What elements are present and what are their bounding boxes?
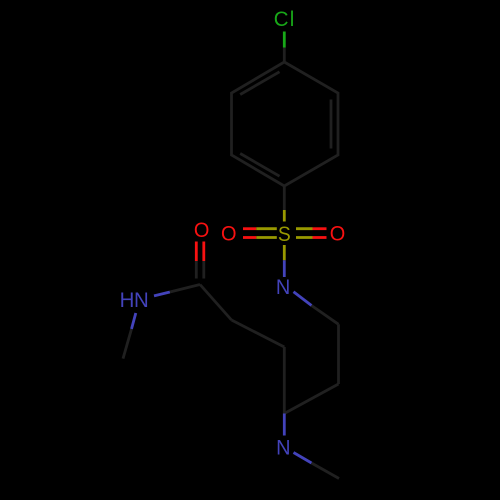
wire: Cl-C bond green half [283, 32, 286, 48]
wire: HN-CH3 bond nitrogen half [132, 313, 136, 329]
wire: C4-C5 bond [232, 320, 285, 347]
S=O right double bond S halves [296, 227, 313, 230]
C3=O double bond red halves [195, 242, 198, 262]
benzene double bond inner R [330, 100, 333, 149]
wire: C2-C6 bond [284, 384, 338, 414]
wire: C-S bond sulfur half [283, 210, 286, 222]
wire: S-N bond nitrogen half [283, 260, 286, 277]
wire: S-N bond sulfur half [283, 245, 286, 260]
S=O left double bond red halves [243, 227, 256, 230]
svg-text:S: S [278, 223, 291, 246]
wire: C6-Nbot bond nitrogen half [283, 414, 286, 436]
wire: N-C1 bond carbon half [312, 306, 339, 325]
svg-text:N: N [276, 436, 290, 460]
svg-text:HN: HN [120, 289, 149, 313]
svg-text:O: O [194, 219, 210, 243]
benzene double bond inner UL [240, 72, 279, 95]
wire: HN-C3 bond nitrogen half [154, 292, 170, 296]
wire: HN-CH3 bond carbon half [123, 329, 132, 359]
wire: N-C1 bond nitrogen half [294, 292, 312, 306]
wire: Nbot-CH3 bond nitrogen half [294, 453, 312, 464]
svg-text:O: O [330, 222, 346, 246]
wire: HN-C3 bond carbon half [170, 285, 200, 293]
wire: C-S bond carbon half [283, 186, 286, 210]
svg-text:N: N [276, 275, 290, 299]
svg-text:Cl: Cl [274, 8, 296, 32]
wire: C5-C6 bond [283, 347, 286, 414]
S=O right double bond red halves [313, 227, 327, 230]
wire: Cl-C bond carbon half [283, 48, 286, 63]
benzene double bond inner LL [240, 154, 279, 177]
C3=O double bond carbon halves [195, 261, 198, 279]
svg-text:O: O [221, 222, 237, 246]
wire: C3-C4 bond [200, 285, 232, 321]
S=O left double bond S halves [256, 227, 277, 230]
wire: Nbot-CH3 bond carbon half [312, 463, 340, 479]
benzene ring outer [232, 62, 339, 186]
wire: C1-C2 bond [337, 324, 340, 384]
